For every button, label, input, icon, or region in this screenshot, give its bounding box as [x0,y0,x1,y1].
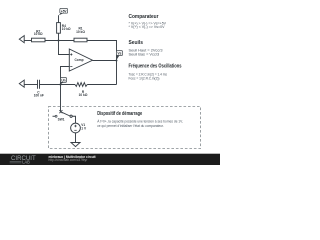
switch SW1 [53,110,73,121]
svg-text:Vs: Vs [118,52,122,56]
svg-text:Fosc = 1/(2.R.C.ln(2)): Fosc = 1/(2.R.C.ln(2)) [129,76,160,80]
wire [87,41,117,85]
wire - input stub [61,67,70,85]
svg-text:10 kΩ: 10 kΩ [76,30,85,34]
wire output [93,60,117,62]
svg-text:100 nF: 100 nF [34,93,44,97]
wire [75,133,77,143]
wire [25,84,38,86]
power flag +5V [59,8,68,15]
logo CircuitLab [10,155,36,165]
voltage source V1 1V [71,123,87,133]
wire [58,15,60,22]
svg-text:+5V: +5V [61,9,67,13]
footer credit text [49,155,97,162]
wire [25,40,32,42]
resistor R2 [32,29,46,42]
footer bar [0,154,220,165]
node Vs junction [116,60,118,62]
terminal port top-left [19,36,24,43]
wire [87,84,116,86]
svg-text:10 kΩ: 10 kΩ [79,93,88,97]
svg-text:Seuils: Seuils [129,40,144,46]
node flag Un [61,78,67,85]
resistor R (zigzag) [75,83,88,98]
wire [58,33,60,40]
svg-text:SW1: SW1 [58,118,65,122]
terminal port bottom-left [19,80,24,87]
svg-text:Dispositif de démarrage: Dispositif de démarrage [97,111,142,117]
wire [45,40,74,42]
svg-text:http://circuitlab.com/c37fbyr: http://circuitlab.com/c37fbyr [49,158,89,162]
node V+ junction [58,40,60,42]
capacitor C 100nF [34,80,44,98]
ground [71,143,80,147]
svg-text:ce qui permet d’initialiser l’: ce qui permet d’initialiser l’état du co… [97,124,164,128]
text Frequence des Oscillations [129,63,182,80]
svg-text:10 kΩ: 10 kΩ [62,27,71,31]
node flag Vs [116,51,122,60]
svg-text:Un: Un [61,78,65,82]
wire + input stub [59,41,70,55]
svg-text:10 kΩ: 10 kΩ [34,32,43,36]
text Comparateur [129,14,167,29]
wire switch column [60,85,62,112]
svg-text:Comparateur: Comparateur [129,14,160,20]
svg-text:LAB: LAB [22,160,30,165]
svg-text:Fréquence des Oscillations: Fréquence des Oscillations [129,63,182,69]
node Un junction [60,84,62,86]
svg-text:* V(+) < V(-) => Vs=0V: * V(+) < V(-) => Vs=0V [129,25,166,29]
text Seuils [129,40,163,56]
op-amp U1 Comp [69,49,92,71]
wire [40,84,76,86]
dashed box dispositif [49,107,201,149]
svg-text:Seuil Bas = Vcc/3: Seuil Bas = Vcc/3 [129,52,160,56]
wire [72,116,75,123]
resistor R1 [74,27,87,42]
text Dispositif de demarrage [97,111,183,128]
svg-text:Comp: Comp [75,58,84,62]
resistor R4 [57,23,71,34]
